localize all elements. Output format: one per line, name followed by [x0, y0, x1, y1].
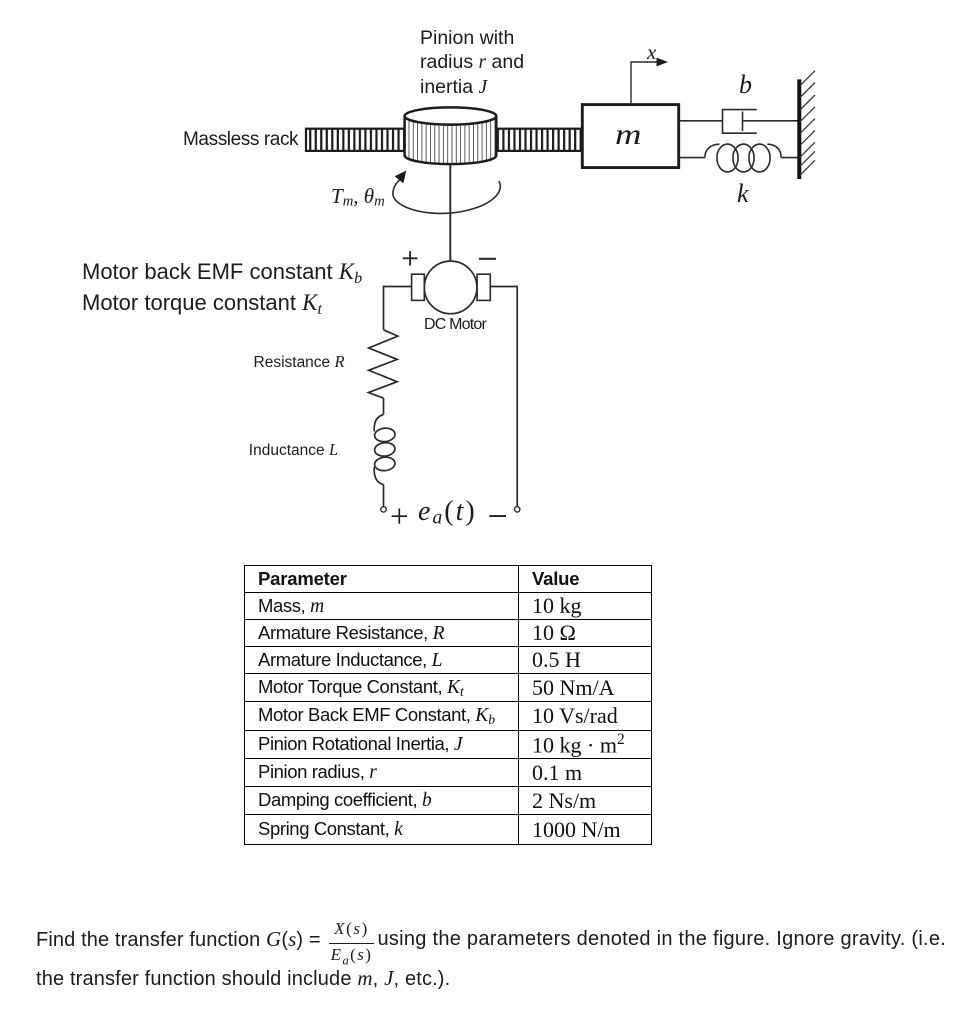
mass m block	[582, 105, 678, 168]
parameter table	[244, 565, 652, 845]
label: DC Motor	[424, 317, 486, 333]
bottom problem statement line 1 (after fraction)	[378, 929, 947, 949]
label: b	[739, 72, 752, 98]
rack left segment	[306, 129, 406, 151]
rack right segment	[495, 129, 583, 151]
rotation arrow Tm, theta m	[393, 171, 500, 214]
inductor L coil	[374, 415, 396, 485]
bottom problem statement line 2	[36, 968, 450, 989]
pinion top ellipse	[405, 107, 497, 124]
motor right brush	[477, 274, 490, 300]
damper b	[679, 110, 799, 134]
label: Tm, theta m	[331, 186, 385, 209]
wire right (brush to - terminal)	[490, 287, 517, 507]
label: Motor back EMF constant Kb / Motor torque constant Kt	[82, 260, 362, 320]
label: Inductance L	[249, 442, 338, 459]
spring k	[679, 144, 799, 172]
bottom problem statement fraction X(s)/Ea(s)	[329, 920, 374, 967]
motor - polarity mark	[479, 258, 496, 260]
motor + polarity mark	[403, 251, 418, 266]
wire inductor to + terminal	[383, 485, 385, 507]
resistor R zigzag	[369, 330, 398, 398]
pinion shaft	[449, 164, 451, 261]
wire between resistor and inductor	[383, 398, 385, 414]
motor left brush	[412, 274, 425, 300]
label: x	[647, 42, 656, 63]
DC motor circle	[424, 261, 477, 314]
x displacement arrow	[631, 58, 668, 104]
wire left (brush to resistor)	[384, 287, 412, 330]
label: + ea(t) - source	[0, 0, 1, 1]
label: Massless rack	[183, 130, 298, 149]
label: Resistance R	[254, 354, 345, 371]
- input terminal	[515, 507, 520, 512]
diagram svg	[0, 0, 959, 545]
label: k	[737, 181, 749, 207]
pinion body (cylinder side with teeth hatching)	[405, 116, 497, 164]
+ input terminal	[381, 507, 386, 512]
bottom problem statement line 1 (before fraction)	[36, 929, 321, 950]
label: Pinion with radius r and inertia J	[420, 26, 524, 100]
label: m (mass)	[615, 120, 641, 150]
wall	[799, 71, 815, 179]
